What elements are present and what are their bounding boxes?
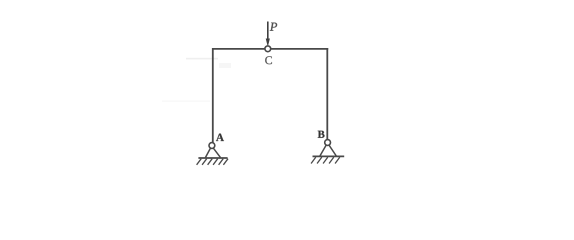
support B: hatching (311, 157, 340, 163)
support B: triangle sides (320, 145, 336, 156)
support A: pin circle (209, 143, 215, 149)
label A (216, 134, 224, 141)
load arrow P (266, 22, 269, 46)
support A: hatching (197, 159, 228, 165)
label C (265, 56, 272, 64)
support A: triangle sides (205, 148, 220, 158)
member: left column (212, 48, 214, 143)
label B (318, 131, 325, 138)
hinge C (265, 46, 271, 52)
faint scan dash line (162, 101, 210, 102)
faint scan smudge left of frame (186, 58, 218, 60)
member: top beam (212, 48, 328, 50)
support B: pin circle (325, 140, 331, 146)
faint scan mark near corner (219, 63, 231, 68)
member: right column (326, 48, 328, 140)
label P (270, 23, 277, 31)
support B: ground line (313, 155, 345, 157)
support A: ground line (198, 157, 227, 159)
